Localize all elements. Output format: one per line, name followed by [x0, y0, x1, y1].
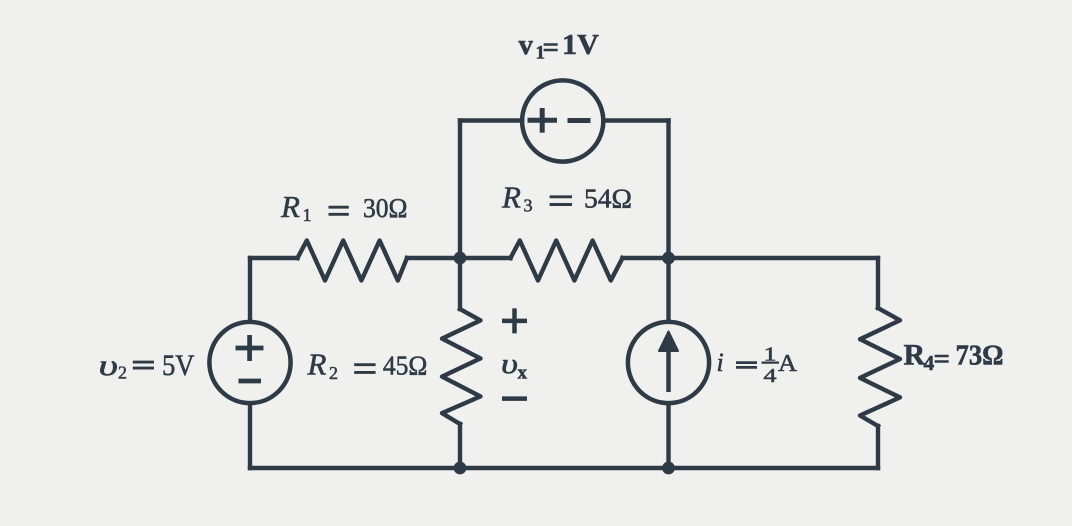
wire left vertical lower	[248, 404, 252, 468]
svg-text:5V: 5V	[162, 349, 195, 382]
svg-text:υ: υ	[99, 349, 119, 382]
label vx	[501, 349, 528, 384]
label R3 = 54ohm	[501, 180, 632, 216]
resistor R3 zigzag	[511, 241, 623, 281]
svg-text:i: i	[717, 348, 724, 377]
svg-text:1V: 1V	[562, 29, 599, 61]
svg-text:A: A	[778, 351, 798, 377]
label minus below vx	[502, 396, 527, 401]
wire bottom horizontal	[250, 466, 878, 470]
wire left vertical upper	[248, 258, 252, 321]
V2 minus sign	[239, 379, 262, 384]
svg-text:=: =	[543, 32, 560, 64]
svg-text:υ: υ	[501, 349, 518, 380]
wire between R3 and node B	[623, 256, 669, 260]
node C dot (bottom left)	[454, 462, 467, 475]
wire top horizontal left of V1	[460, 118, 522, 122]
wire node B to top-right corner	[669, 256, 879, 260]
svg-text:R: R	[280, 189, 300, 224]
current source arrowhead	[659, 332, 678, 352]
wire current source branch upper	[666, 258, 670, 321]
resistor R1 zigzag	[298, 241, 408, 281]
svg-text:1: 1	[303, 205, 312, 225]
wire right vertical lower	[876, 426, 880, 468]
label v2 = 5V	[99, 349, 195, 383]
wire main horizontal left segment	[250, 256, 298, 260]
label R1 = 30ohm	[280, 189, 408, 225]
svg-text:R: R	[307, 347, 327, 382]
label i = 1/4 A	[717, 344, 798, 388]
wire right vertical upper	[876, 258, 880, 308]
svg-text:45Ω: 45Ω	[383, 351, 428, 381]
svg-text:R: R	[501, 180, 521, 215]
svg-text:2: 2	[118, 362, 127, 382]
V2 plus sign	[236, 335, 264, 361]
resistor R4 zigzag	[860, 308, 900, 426]
svg-text:3: 3	[524, 196, 533, 216]
voltage source V1 circle	[522, 80, 603, 161]
wire between R1 and node A	[407, 256, 460, 260]
current source arrow shaft	[666, 350, 671, 392]
wire top horizontal right of V1	[604, 118, 669, 122]
svg-text:v: v	[519, 29, 534, 61]
svg-text:73Ω: 73Ω	[956, 341, 1004, 372]
svg-text:=: =	[934, 343, 951, 375]
svg-text:30Ω: 30Ω	[363, 193, 408, 223]
svg-text:x: x	[518, 363, 528, 384]
svg-text:R: R	[904, 339, 926, 372]
wire top-left vertical	[458, 121, 462, 259]
wire top-right vertical	[666, 121, 670, 259]
svg-text:54Ω: 54Ω	[584, 184, 632, 214]
svg-text:4: 4	[764, 365, 777, 387]
label plus above vx	[502, 308, 527, 333]
wire between node A and R3	[460, 256, 511, 260]
node D dot (bottom right)	[662, 462, 675, 475]
V1 plus sign	[528, 108, 558, 133]
current source circle	[628, 322, 709, 403]
wire middle vertical lower	[458, 424, 462, 468]
svg-text:2: 2	[329, 363, 338, 383]
label v1 = 1V	[519, 29, 600, 64]
node A dot	[454, 252, 467, 265]
wire middle vertical upper	[458, 258, 462, 309]
wire current source branch lower	[666, 404, 670, 468]
node B dot	[662, 252, 675, 265]
V1 minus sign	[568, 118, 591, 123]
label R2 = 45ohm	[307, 347, 428, 383]
voltage source V2 circle	[209, 322, 290, 403]
resistor R2 zigzag	[442, 309, 481, 424]
label R4 = 73ohm	[904, 339, 1004, 375]
